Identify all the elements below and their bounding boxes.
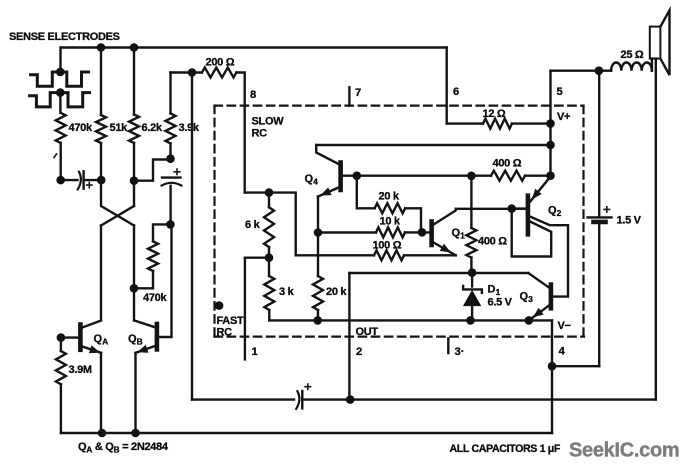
svg-text:Q2: Q2 (548, 205, 562, 219)
svg-text:V+: V+ (557, 111, 570, 123)
transistor Q2 emitter (530, 177, 550, 202)
svg-text:200 Ω: 200 Ω (206, 57, 235, 69)
wire Q4 emitter down to 20k (317, 197, 319, 277)
svg-text:FAST: FAST (217, 315, 244, 327)
svg-text:470k: 470k (143, 292, 167, 304)
wire Q4 base down to 20k (357, 176, 375, 209)
node dot Q4 base (353, 171, 362, 180)
transistor QA emitter arrow (89, 345, 100, 353)
svg-text:ALL CAPACITORS 1 μF: ALL CAPACITORS 1 μF (450, 443, 561, 455)
transistor Q1 bar (429, 222, 434, 246)
transistor Q3 bar (549, 285, 554, 309)
transistor QA emitter (82, 347, 101, 353)
wire 400ohm vert bottom (470, 258, 472, 273)
svg-text:51k: 51k (110, 122, 129, 134)
wire cap C1 right (84, 179, 101, 181)
transistor QA base wire (61, 336, 79, 338)
wire crossing left-to-right (101, 180, 134, 225)
wire 470k-2 top (153, 224, 170, 241)
wire pin 5 V+ column (549, 71, 551, 177)
resistor 400ohm vertical (466, 228, 476, 258)
wire 6k bottom (268, 247, 270, 258)
speaker LS1 frame (650, 27, 661, 59)
node dot D1 top (468, 268, 477, 277)
resistor 6.2k (133, 48, 135, 115)
resistor 3.9M (56, 351, 66, 384)
capacitor C2 straight plate (162, 176, 181, 178)
node dot 6.2k cap row (130, 176, 139, 185)
transistor QB collector (134, 320, 155, 327)
diode D1 cathode bar (463, 286, 482, 293)
wire pin 6 from top rail (446, 48, 448, 124)
resistor 470k (second) (148, 241, 158, 271)
wire 470k-2 bottom (134, 271, 153, 288)
svg-text:1.5 V: 1.5 V (617, 215, 642, 227)
node dot Q2 base (507, 204, 516, 213)
svg-text:3.9M: 3.9M (69, 364, 92, 376)
transistor Q4 bar (338, 163, 343, 191)
svg-text:6 k: 6 k (245, 219, 261, 231)
resistor 20k lower (313, 276, 323, 310)
wire pin6 to 12ohm (447, 122, 483, 124)
transistor Q3 emitter (529, 306, 549, 321)
resistor 400ohm upper (491, 171, 525, 181)
wire V+ rail Q4 collector (316, 144, 550, 146)
transistor Q4 emitter (318, 188, 339, 197)
battery BT1 short plate (594, 220, 606, 225)
svg-text:RC: RC (252, 128, 268, 140)
node dot 3.9k bottom (166, 154, 175, 163)
wire QB emitter down (134, 353, 136, 433)
wire QA base to 3.9M (60, 338, 62, 351)
wire pin 4 V- down (551, 320, 553, 433)
node dot pin4 battery branch (548, 362, 557, 371)
svg-text:3·: 3· (455, 346, 465, 358)
IC box dashed outline (215, 106, 585, 337)
resistor 12ohm (483, 119, 512, 129)
node dot 20k bottom (313, 316, 322, 325)
wire ground rail bottom (61, 432, 552, 434)
transistor Q2 base wire (512, 207, 526, 209)
wire 100ohm right to Q1 emitter (404, 254, 456, 256)
wire pin 2 down (348, 273, 350, 400)
svg-text:4: 4 (559, 346, 566, 358)
transistor Q4 base wire (343, 174, 357, 176)
wire 400ohm upper right (525, 174, 551, 176)
transistor Q4 collector (316, 145, 338, 164)
node dot 10k left (314, 228, 323, 237)
capacitor C3 plus sign (305, 384, 310, 389)
pin 7 stub (348, 87, 350, 105)
wire QA emitter down (100, 353, 102, 433)
wire battery bottom (598, 224, 600, 366)
wire 6k junction to pin 1 (245, 257, 269, 259)
node dot Q1 base (418, 228, 427, 237)
stray mark (scan tick) (54, 154, 57, 158)
wire top rail down to electrode E1 (59, 48, 61, 72)
capacitor C1 straight plate (82, 171, 84, 188)
svg-text:SeekIC.com: SeekIC.com (569, 440, 679, 462)
node dot long drop wire (188, 68, 197, 77)
wire pin8 to 6k top (245, 191, 269, 193)
wire pin4 to battery minus (552, 365, 599, 367)
transistor Q1 collector (434, 209, 456, 225)
svg-text:V−: V− (558, 320, 571, 332)
pin 1 wire (244, 258, 246, 360)
transistor Q1 emitter arrow (440, 244, 451, 253)
wire 12ohm to pin5 (512, 122, 551, 124)
svg-text:RC: RC (217, 327, 233, 339)
wire crossing right-to-left (101, 206, 134, 226)
svg-text:3.9k: 3.9k (179, 122, 200, 134)
speaker LS1 cone (660, 10, 669, 75)
wire 400ohm vert top (470, 176, 472, 228)
transistor Q3 emitter arrow (533, 308, 544, 318)
svg-text:6: 6 (453, 86, 459, 98)
svg-text:2: 2 (356, 346, 362, 358)
wire 3k bottom to V- rail (268, 310, 270, 320)
transistor QB bar (155, 324, 160, 349)
svg-text:Q4: Q4 (305, 173, 319, 187)
node dot pin2 output rail (346, 395, 355, 404)
node dot cap C1 left (56, 176, 65, 185)
node dot QA base (57, 333, 66, 342)
wire V- rail inside box (269, 319, 552, 321)
svg-text:8: 8 (250, 89, 256, 101)
svg-text:5: 5 (557, 86, 563, 98)
resistor 3.9k (169, 73, 171, 114)
svg-text:Q3: Q3 (520, 291, 534, 305)
wire output rail left segment (192, 398, 294, 400)
wire 6.2k down to crossing (133, 143, 135, 206)
transistor Q2 emitter arrow (532, 189, 542, 200)
node dot 6k-3k junction (265, 253, 274, 262)
battery plus sign (604, 207, 609, 212)
node dot cap C1 right (97, 176, 106, 185)
node dot QA emitter ground (98, 429, 107, 438)
electrode E1 upper comb (31, 72, 89, 86)
diode D1 triangle (463, 290, 481, 306)
node dot V+ Q4 rail (546, 141, 555, 150)
node dot battery top rail (595, 66, 604, 75)
node dot 470k-2 bottom junction (130, 284, 139, 293)
node dot Q3 emitter (525, 316, 534, 325)
resistor 20k mid (375, 203, 406, 213)
transistor Q1 emitter (434, 243, 456, 256)
transistor Q2 collector upper to Q3 base (530, 217, 568, 297)
svg-text:SLOW: SLOW (252, 116, 285, 128)
node dot D1 anode (466, 316, 475, 325)
svg-text:470k: 470k (69, 122, 93, 134)
transistor QB emitter (136, 346, 155, 353)
transistor QB base wire (159, 224, 172, 337)
transistor QB emitter arrow (137, 345, 148, 353)
wire QA collector column (100, 226, 102, 321)
capacitor C1 curved plate (78, 172, 81, 190)
capacitor C2 curved plate (162, 183, 182, 186)
svg-text:20 k: 20 k (326, 286, 347, 298)
transistor Q2 collector lower loop to base (512, 209, 552, 257)
wire step from 3.9k bottom to 6.2k column (134, 160, 171, 181)
node dot 6k top (265, 188, 274, 197)
svg-text:1: 1 (252, 346, 258, 358)
node dot 12ohm right (546, 119, 555, 128)
node dot QB emitter ground (131, 429, 140, 438)
wire coil to speaker (651, 59, 653, 71)
wire Q4 base rail to 400ohm (357, 174, 491, 176)
resistor 6k (268, 193, 270, 208)
inductor 25ohm coil (611, 62, 652, 70)
pin 3 stub (447, 338, 449, 353)
svg-text:7: 7 (355, 87, 361, 99)
wire 20k mid right to Q1 base (405, 208, 421, 232)
svg-text:400 Ω: 400 Ω (478, 236, 507, 248)
capacitor C3 curved plate (296, 391, 299, 409)
svg-text:25 Ω: 25 Ω (621, 49, 644, 61)
svg-text:OUT: OUT (356, 326, 379, 338)
capacitor C2 plus sign (174, 169, 180, 175)
transistor QA collector (82, 321, 101, 328)
wire output rail right segment (302, 398, 656, 400)
node dot top rail 51k column (97, 43, 106, 52)
node dot top rail 6.2k column (130, 43, 139, 52)
svg-text:20 k: 20 k (379, 191, 400, 203)
wire electrode E2 down to 470k (59, 93, 61, 113)
svg-text:6.2k: 6.2k (142, 122, 163, 134)
wire cap C1 left (61, 179, 78, 181)
transistor Q2 bar (526, 196, 531, 235)
svg-text:SENSE ELECTRODES: SENSE ELECTRODES (9, 31, 120, 43)
wire top rail from electrodes to pin 6 (61, 46, 447, 48)
wire V+ top rail to coil (551, 69, 612, 71)
wire 10k right to Q1 base (405, 231, 430, 233)
node dot V+ 400ohm right (546, 171, 555, 180)
wire battery top (598, 71, 600, 217)
wire long drop from 200ohm node to output cap rail (191, 73, 193, 400)
capacitor C3 straight plate (301, 391, 303, 408)
svg-text:D1: D1 (488, 284, 501, 298)
svg-text:QA: QA (94, 333, 109, 347)
svg-text:3 k: 3 k (279, 286, 295, 298)
wire QB collector column (133, 226, 135, 321)
resistor 3k (268, 258, 270, 276)
svg-text:10 k: 10 k (380, 216, 401, 228)
wire D1 anode down (471, 306, 473, 320)
transistor Q4 emitter arrow (320, 187, 331, 195)
svg-text:12 Ω: 12 Ω (483, 108, 506, 120)
wire 3.9M to ground rail (60, 384, 62, 433)
wire 51k to cap junction (100, 143, 102, 180)
FAST RC bullet (215, 301, 224, 310)
electrode E2 lower comb (30, 93, 90, 107)
node dot 470k-2 / QB base junction (166, 220, 175, 229)
battery BT1 long plate (588, 216, 612, 218)
wire 200ohm right to pin 8 (236, 73, 244, 193)
wire OUT rail (349, 272, 528, 274)
wire 3.9k top to 200ohm (171, 71, 202, 73)
wire speaker return down right side (655, 59, 657, 400)
wire 470k to cap junction (60, 143, 62, 180)
wire Q1 collector to Q2 base (456, 208, 526, 210)
resistor 51k (100, 48, 102, 116)
wire D1 cathode from OUT rail (471, 273, 473, 287)
wire 20k lower bottom (317, 310, 319, 320)
capacitor C1 plus sign (87, 183, 92, 188)
resistor 10k (318, 231, 376, 233)
wire cap C2 down to node (169, 186, 171, 225)
resistor 470k (left) (56, 113, 66, 143)
resistor 100ohm (374, 250, 404, 260)
transistor QA bar (78, 325, 83, 350)
svg-text:QB: QB (128, 333, 143, 347)
wire 3.9k to cap C2 (169, 143, 171, 158)
node dot 400ohm left / vertical 400ohm top (467, 172, 476, 181)
resistor 200ohm (202, 68, 237, 78)
svg-text:6.5 V: 6.5 V (488, 297, 513, 309)
svg-text:Q1: Q1 (452, 227, 466, 241)
svg-text:100 Ω: 100 Ω (373, 240, 402, 252)
svg-text:QA & QB = 2N2484: QA & QB = 2N2484 (78, 441, 169, 455)
transistor Q3 collector (528, 273, 549, 288)
node dot electrode E1 (56, 68, 65, 77)
node dot electrode E2 (56, 88, 65, 97)
wire slow-rc over to 100ohm (269, 193, 374, 256)
svg-text:400 Ω: 400 Ω (493, 158, 522, 170)
